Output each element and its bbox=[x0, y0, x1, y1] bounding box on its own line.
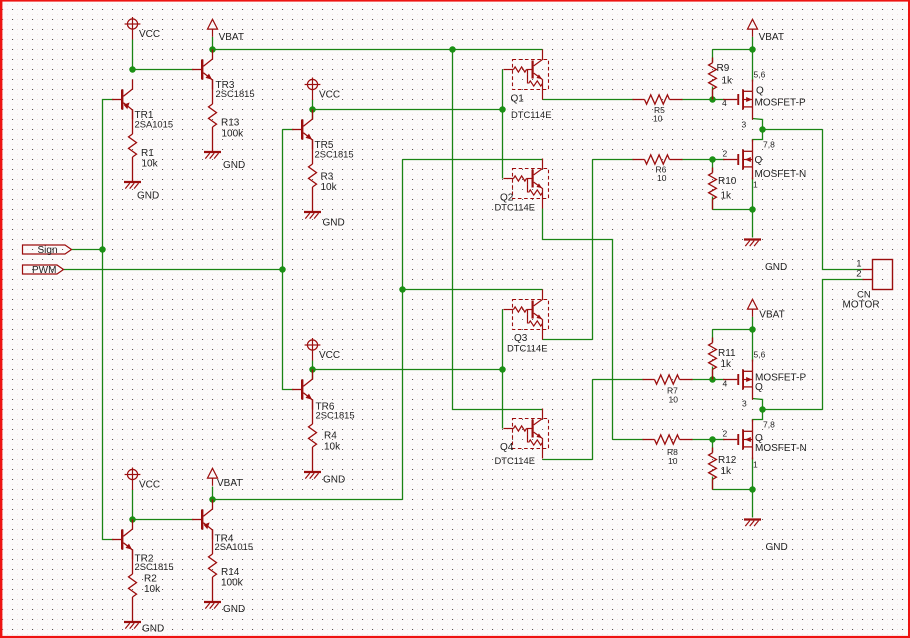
svg-text:GND: GND bbox=[137, 191, 159, 202]
svg-text:1k: 1k bbox=[722, 76, 734, 87]
svg-text:VCC: VCC bbox=[319, 90, 340, 101]
svg-text:1k: 1k bbox=[721, 359, 733, 370]
svg-text:Sign: Sign bbox=[38, 245, 58, 256]
svg-text:VCC: VCC bbox=[319, 350, 340, 361]
svg-text:10: 10 bbox=[669, 395, 679, 405]
svg-text:Q: Q bbox=[755, 155, 763, 166]
svg-text:PWM: PWM bbox=[32, 265, 56, 276]
svg-text:R2: R2 bbox=[144, 574, 157, 585]
svg-text:VBAT: VBAT bbox=[217, 478, 242, 489]
svg-text:10: 10 bbox=[668, 456, 678, 466]
svg-text:R4: R4 bbox=[324, 431, 337, 442]
svg-text:100k: 100k bbox=[221, 578, 244, 589]
svg-text:2: 2 bbox=[723, 429, 728, 439]
svg-text:R3: R3 bbox=[321, 172, 334, 183]
svg-text:DTC114E: DTC114E bbox=[495, 455, 535, 466]
svg-text:R11: R11 bbox=[718, 348, 736, 359]
svg-text:VCC: VCC bbox=[139, 29, 160, 40]
svg-text:7,8: 7,8 bbox=[763, 140, 775, 150]
svg-text:100k: 100k bbox=[222, 129, 245, 140]
svg-text:3: 3 bbox=[742, 398, 747, 408]
svg-text:10: 10 bbox=[653, 114, 663, 124]
svg-text:4: 4 bbox=[723, 379, 728, 389]
svg-text:2SC1815: 2SC1815 bbox=[316, 410, 355, 421]
svg-text:R14: R14 bbox=[221, 567, 240, 578]
svg-text:R13: R13 bbox=[221, 118, 240, 129]
svg-text:DTC114E: DTC114E bbox=[495, 202, 535, 213]
svg-text:2SA1015: 2SA1015 bbox=[215, 541, 254, 552]
svg-text:2SC1815: 2SC1815 bbox=[135, 561, 174, 572]
svg-text:GND: GND bbox=[142, 624, 164, 635]
svg-text:5,6: 5,6 bbox=[754, 70, 766, 80]
svg-text:3: 3 bbox=[742, 120, 747, 130]
svg-text:MOTOR: MOTOR bbox=[843, 300, 880, 311]
svg-text:GND: GND bbox=[766, 542, 788, 553]
svg-text:10k: 10k bbox=[321, 182, 338, 193]
svg-text:4: 4 bbox=[722, 98, 727, 108]
svg-text:2SA1015: 2SA1015 bbox=[135, 119, 174, 130]
svg-text:GND: GND bbox=[223, 160, 245, 171]
svg-text:GND: GND bbox=[765, 262, 787, 273]
svg-text:2: 2 bbox=[723, 149, 728, 159]
svg-text:Q4: Q4 bbox=[500, 442, 514, 453]
svg-text:DTC114E: DTC114E bbox=[511, 109, 551, 120]
svg-text:Q1: Q1 bbox=[511, 94, 525, 105]
svg-text:1: 1 bbox=[753, 180, 758, 190]
svg-text:2SC1815: 2SC1815 bbox=[216, 88, 255, 99]
svg-text:R9: R9 bbox=[717, 63, 730, 74]
svg-text:Q: Q bbox=[755, 382, 763, 393]
svg-text:R12: R12 bbox=[718, 455, 737, 466]
svg-text:MOSFET-P: MOSFET-P bbox=[755, 98, 806, 109]
svg-text:MOSFET-N: MOSFET-N bbox=[755, 169, 807, 180]
svg-text:2SC1815: 2SC1815 bbox=[315, 149, 354, 160]
svg-text:10k: 10k bbox=[144, 584, 161, 595]
svg-text:1: 1 bbox=[753, 460, 758, 470]
svg-text:R1: R1 bbox=[141, 148, 154, 159]
svg-text:2: 2 bbox=[856, 269, 861, 280]
svg-text:GND: GND bbox=[223, 604, 245, 615]
svg-text:Q: Q bbox=[756, 86, 764, 97]
svg-text:VBAT: VBAT bbox=[759, 310, 784, 321]
svg-text:10k: 10k bbox=[324, 442, 341, 453]
svg-text:1k: 1k bbox=[721, 466, 733, 477]
svg-text:DTC114E: DTC114E bbox=[507, 343, 547, 354]
svg-text:VBAT: VBAT bbox=[219, 32, 244, 43]
svg-text:R10: R10 bbox=[718, 176, 737, 187]
svg-text:GND: GND bbox=[323, 218, 345, 229]
svg-text:10: 10 bbox=[657, 173, 667, 183]
svg-text:VCC: VCC bbox=[139, 480, 160, 491]
svg-text:VBAT: VBAT bbox=[759, 32, 784, 43]
svg-text:10k: 10k bbox=[142, 159, 159, 170]
svg-text:MOSFET-N: MOSFET-N bbox=[755, 443, 807, 454]
svg-text:5,6: 5,6 bbox=[754, 350, 766, 360]
svg-text:GND: GND bbox=[323, 475, 345, 486]
svg-text:7,8: 7,8 bbox=[763, 419, 775, 429]
svg-text:1k: 1k bbox=[721, 191, 733, 202]
